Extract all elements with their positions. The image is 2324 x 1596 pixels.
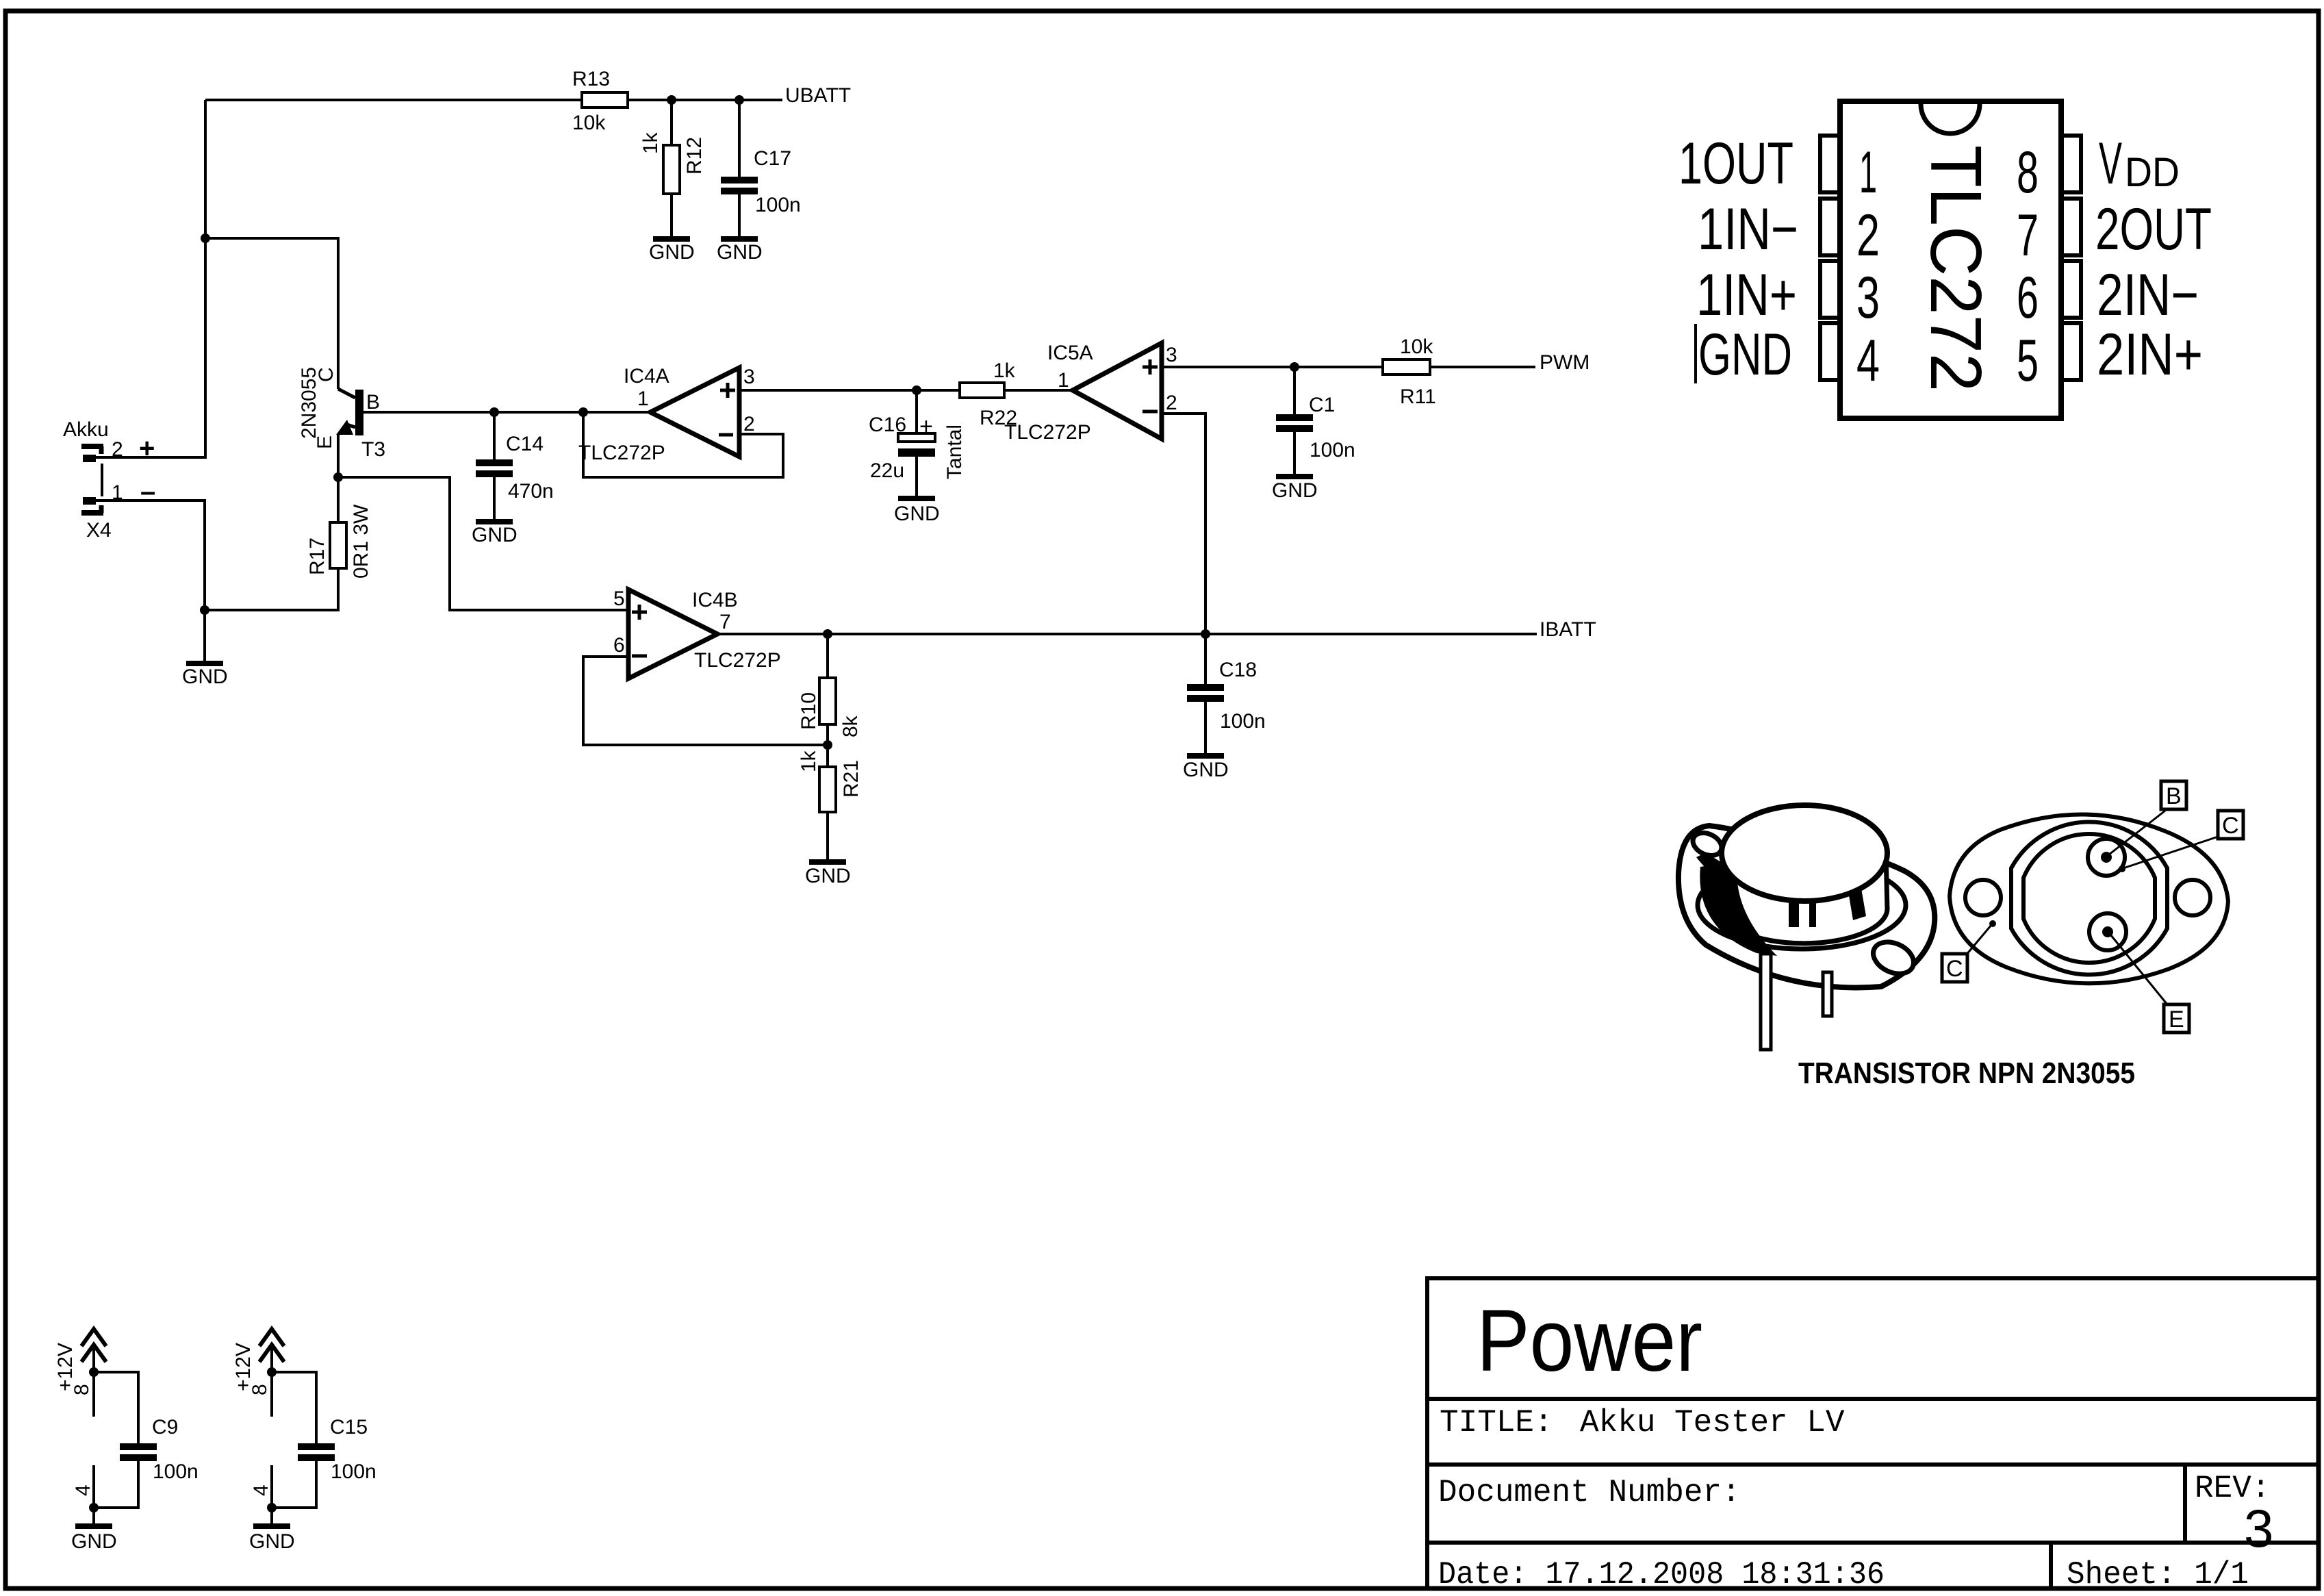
resistor R13	[582, 92, 628, 107]
svg-text:B: B	[366, 391, 380, 414]
svg-text:3: 3	[2244, 1498, 2273, 1558]
svg-text:4: 4	[250, 1484, 272, 1496]
svg-text:Tantal: Tantal	[943, 425, 966, 479]
svg-text:4: 4	[1856, 328, 1880, 394]
can outline inner	[2023, 834, 2155, 963]
capacitor C18	[1204, 634, 1207, 684]
notch	[1921, 104, 1980, 134]
capacitor C14	[493, 412, 496, 459]
svg-text:GND: GND	[1698, 322, 1792, 388]
node C15 bottom junction	[267, 1503, 277, 1512]
svg-text:IBATT: IBATT	[1540, 618, 1596, 641]
svg-text:IC4B: IC4B	[692, 589, 738, 611]
TO-3 3D flange dark wedge	[1696, 853, 1732, 882]
pin 4 stub IC4	[92, 1465, 95, 1508]
svg-text:C15: C15	[330, 1416, 368, 1439]
svg-text:100n: 100n	[331, 1460, 376, 1483]
op-amp IC5A	[1073, 343, 1162, 439]
wire GND stub	[203, 610, 206, 662]
op-amp IC4B	[628, 590, 717, 679]
svg-text:3: 3	[743, 366, 755, 388]
op-amp IC4A	[650, 368, 739, 457]
svg-text:UBATT: UBATT	[785, 84, 851, 107]
svg-text:GND: GND	[894, 503, 940, 525]
pin 2 stub	[1820, 199, 1840, 255]
svg-text:2IN+: 2IN+	[2097, 322, 2203, 388]
capacitor C17	[738, 100, 741, 177]
svg-text:0R1 3W: 0R1 3W	[350, 504, 372, 579]
TO-3 3D can side	[1720, 854, 1887, 943]
TO-3 3D can shading left	[1700, 861, 1777, 956]
svg-text:C17: C17	[754, 147, 791, 170]
svg-text:C16: C16	[869, 414, 906, 436]
svg-text:GND: GND	[805, 865, 851, 887]
connector X4 body line	[101, 464, 103, 496]
wire IBATT line	[717, 633, 1537, 635]
svg-text:Document Number:: Document Number:	[1438, 1475, 1741, 1510]
ground below C1	[1276, 474, 1313, 479]
svg-text:Sheet: 1/1: Sheet: 1/1	[2067, 1557, 2249, 1593]
pin 8 stub IC4	[92, 1372, 95, 1417]
svg-text:1k: 1k	[639, 131, 662, 154]
svg-text:6: 6	[613, 634, 625, 657]
svg-text:8k: 8k	[839, 715, 862, 737]
pin 8 stub IC5	[270, 1372, 273, 1417]
ground below C17	[721, 236, 758, 242]
svg-text:GND: GND	[71, 1530, 117, 1553]
svg-text:100n: 100n	[1220, 710, 1266, 733]
svg-text:7: 7	[719, 611, 731, 633]
node divider junction	[823, 740, 832, 750]
TO-3 bottom view flange	[1950, 814, 2228, 983]
svg-text:DD: DD	[2125, 149, 2180, 195]
node C16 junction	[912, 385, 921, 395]
pin 3 stub	[1820, 261, 1840, 318]
pin 8 stub	[2061, 136, 2081, 192]
svg-text:Akku: Akku	[63, 418, 109, 441]
svg-text:1IN+: 1IN+	[1696, 262, 1797, 328]
svg-text:E: E	[2169, 1006, 2184, 1033]
svg-text:GND: GND	[182, 666, 228, 688]
svg-text:100n: 100n	[755, 194, 801, 216]
svg-text:5: 5	[2017, 328, 2039, 394]
svg-text:TLC272: TLC272	[1915, 145, 1996, 392]
svg-text:5: 5	[613, 587, 625, 610]
wire left vertical from top to Akku pin2	[96, 100, 205, 457]
box label E	[2164, 1004, 2189, 1033]
resistor R22	[960, 383, 1004, 398]
svg-text:R21: R21	[840, 760, 863, 798]
lead 1	[1761, 954, 1771, 1050]
svg-text:1: 1	[112, 481, 123, 504]
pin B circle	[2088, 839, 2125, 876]
pin 6 stub	[2061, 261, 2081, 318]
svg-text:8: 8	[2017, 140, 2039, 205]
lead 2	[1823, 972, 1832, 1016]
svg-text:7: 7	[2017, 203, 2039, 268]
transistor T3 2N3055	[338, 389, 355, 398]
leader E	[2110, 935, 2167, 1004]
svg-text:Akku Tester LV: Akku Tester LV	[1580, 1405, 1845, 1441]
TO-3 3D flange	[1678, 826, 1934, 987]
ground C9	[75, 1523, 112, 1529]
connector X4 pin 1	[83, 497, 96, 505]
svg-text:8: 8	[248, 1384, 271, 1395]
capacitor C15	[272, 1372, 316, 1443]
svg-text:+: +	[919, 414, 933, 440]
ground below R21	[809, 859, 846, 865]
wire IC5A pin3 to PWM	[1162, 366, 1383, 368]
resistor R21	[826, 745, 829, 767]
wire collector branch	[205, 238, 338, 389]
svg-text:C1: C1	[1309, 394, 1335, 416]
wire IC4A pin2 feedback loop	[583, 412, 783, 477]
node C14 junction	[489, 407, 499, 417]
TO-3 3D top cap	[1722, 805, 1887, 901]
node junction collector branch	[201, 233, 210, 243]
node R10 top junction	[823, 629, 832, 639]
ground below C14	[476, 519, 513, 524]
svg-text:–: –	[140, 477, 155, 507]
wire IC4B pin6 feedback	[583, 657, 828, 745]
box label C right	[2218, 811, 2243, 839]
svg-text:C: C	[315, 367, 337, 382]
svg-text:R12: R12	[683, 137, 706, 175]
pin 4 stub IC5	[270, 1465, 273, 1508]
svg-text:100n: 100n	[1310, 439, 1355, 461]
svg-text:2: 2	[743, 413, 755, 435]
leader C right	[2123, 837, 2218, 868]
resistor R17	[337, 477, 340, 522]
svg-text:C: C	[1946, 956, 1963, 982]
svg-text:2: 2	[1856, 203, 1880, 268]
svg-text:C18: C18	[1219, 659, 1257, 681]
ground below R12	[653, 236, 690, 242]
can outline outer	[2011, 822, 2167, 974]
IC TLC272 package body	[1840, 101, 2061, 418]
svg-text:R10: R10	[797, 692, 820, 730]
resistor R10	[826, 634, 829, 678]
capacitor C16 tantal	[915, 390, 918, 433]
svg-text:2IN−: 2IN−	[2097, 262, 2199, 328]
node junction R12	[667, 95, 676, 105]
mounting hole right	[2175, 880, 2210, 915]
wire emitter sense to IC4B pin5	[338, 477, 628, 610]
svg-text:10k: 10k	[572, 112, 606, 134]
svg-text:2: 2	[1166, 392, 1177, 414]
node junction C17	[735, 95, 744, 105]
svg-text:100n: 100n	[153, 1460, 199, 1483]
svg-text:6: 6	[2017, 265, 2039, 331]
title block frame	[1427, 1278, 2319, 1588]
svg-text:1: 1	[637, 388, 649, 410]
box label C left	[1942, 954, 1967, 982]
leader B	[2109, 811, 2165, 854]
svg-text:E: E	[314, 435, 336, 449]
wire UBATT top	[205, 99, 582, 101]
ground below C16	[898, 496, 935, 501]
svg-text:GND: GND	[1272, 479, 1318, 502]
pin 1 stub	[1820, 136, 1840, 192]
TO-3 3D flange hole small	[1689, 828, 1726, 860]
node C9 top junction	[89, 1367, 99, 1377]
pin E circle	[2089, 913, 2126, 950]
svg-text:R17: R17	[306, 537, 329, 575]
supply +12V arrow C15	[270, 1345, 273, 1372]
svg-text:T3: T3	[361, 438, 385, 461]
svg-text:3: 3	[1856, 265, 1880, 331]
svg-text:X4: X4	[86, 519, 112, 542]
svg-text:TLC272P: TLC272P	[1004, 421, 1091, 444]
svg-text:B: B	[2166, 783, 2182, 809]
svg-text:GND: GND	[649, 241, 695, 264]
svg-text:Power: Power	[1477, 1292, 1702, 1390]
mounting hole left	[1965, 880, 2001, 915]
svg-text:PWM: PWM	[1540, 351, 1589, 374]
svg-text:8: 8	[71, 1384, 93, 1395]
svg-text:1: 1	[1859, 140, 1877, 205]
svg-text:4: 4	[72, 1484, 94, 1496]
svg-text:1k: 1k	[993, 359, 1016, 382]
svg-text:+: +	[139, 433, 155, 464]
TO-3 3D can rim	[1698, 861, 1906, 949]
svg-text:IC5A: IC5A	[1047, 342, 1093, 364]
svg-text:TRANSISTOR NPN 2N3055: TRANSISTOR NPN 2N3055	[1798, 1056, 2135, 1090]
pin 5 stub	[2061, 323, 2081, 380]
box label B	[2161, 781, 2186, 809]
TO-3 3D flange hole big	[1868, 936, 1919, 980]
svg-text:R13: R13	[572, 68, 610, 90]
wire GND node to R17 bottom	[205, 568, 338, 610]
svg-text:IC4A: IC4A	[624, 365, 669, 388]
connector X4 pin 2	[81, 444, 103, 449]
svg-text:GND: GND	[717, 241, 763, 264]
TO-3 3D can shading stripes	[1789, 887, 1799, 927]
svg-text:22u: 22u	[870, 459, 904, 482]
svg-text:V: V	[2099, 131, 2122, 197]
resistor R12	[670, 100, 673, 145]
node C9 bottom junction	[89, 1503, 99, 1512]
svg-text:Date: 17.12.2008 18:31:36: Date: 17.12.2008 18:31:36	[1438, 1557, 1885, 1593]
pin 7 stub	[2061, 199, 2081, 255]
svg-text:1IN−: 1IN−	[1698, 197, 1798, 262]
svg-text:2OUT: 2OUT	[2095, 197, 2212, 262]
node IC4A feedback junction	[578, 407, 588, 417]
wire IC4A pin3 to R22 line	[739, 389, 960, 392]
svg-text:GND: GND	[1183, 759, 1229, 781]
svg-text:TLC272P: TLC272P	[694, 649, 781, 672]
svg-text:TLC272P: TLC272P	[578, 442, 665, 464]
node C1 junction	[1290, 362, 1299, 372]
resistor R11	[1383, 359, 1430, 375]
stray mark before GND	[1694, 324, 1697, 383]
ground below C18	[1187, 753, 1224, 759]
svg-text:C14: C14	[506, 433, 544, 455]
wire IC5A pin2 down to IBATT	[1162, 414, 1205, 633]
capacitor C9	[94, 1372, 138, 1443]
svg-text:470n: 470n	[508, 480, 554, 503]
leader C left	[1966, 925, 1991, 955]
svg-text:R11: R11	[1400, 385, 1436, 408]
wire Akku pin1 to GND node	[96, 501, 205, 610]
svg-text:3: 3	[1166, 344, 1177, 366]
node C18 junction	[1201, 629, 1210, 639]
svg-text:1OUT: 1OUT	[1678, 131, 1793, 197]
svg-text:GND: GND	[249, 1530, 295, 1553]
svg-text:2: 2	[112, 438, 123, 461]
svg-text:1k: 1k	[797, 750, 820, 772]
capacitor C1	[1293, 367, 1296, 414]
svg-text:C: C	[2222, 813, 2239, 839]
svg-text:C9: C9	[152, 1416, 178, 1439]
node C15 top junction	[267, 1367, 277, 1377]
node GND junction	[200, 605, 209, 615]
svg-text:10k: 10k	[1400, 335, 1433, 358]
supply +12V arrow C9	[92, 1345, 95, 1372]
pin 4 stub	[1820, 323, 1840, 380]
ground C15	[253, 1523, 290, 1529]
ground left	[186, 661, 223, 666]
svg-text:TITLE:: TITLE:	[1440, 1405, 1553, 1441]
svg-text:1: 1	[1058, 369, 1069, 392]
node emitter junction	[333, 472, 343, 482]
svg-text:GND: GND	[472, 524, 518, 546]
